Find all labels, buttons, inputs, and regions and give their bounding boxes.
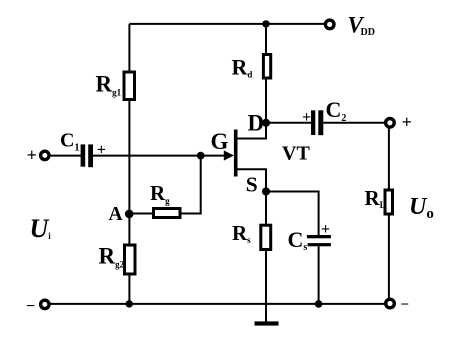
junction drain D bbox=[262, 119, 270, 127]
wire load branch bbox=[388, 123, 390, 304]
svg-text:−: − bbox=[26, 298, 35, 315]
wire node A to Rf bbox=[129, 213, 153, 215]
svg-text:Ui: Ui bbox=[30, 214, 52, 243]
wire source branch through Rs to ground bbox=[265, 192, 267, 322]
resistor Rg2 bbox=[125, 245, 136, 274]
node A junction bbox=[125, 210, 134, 219]
capacitor C2 bbox=[311, 110, 323, 135]
svg-text:G: G bbox=[211, 129, 229, 154]
wire Cs to bottom rail bbox=[318, 246, 320, 304]
svg-text:+: + bbox=[402, 112, 412, 132]
svg-text:+: + bbox=[27, 145, 37, 165]
resistor Rg1 bbox=[124, 72, 135, 100]
wire C2 to output terminal bbox=[323, 122, 385, 124]
svg-text:S: S bbox=[246, 172, 258, 196]
svg-text:+: + bbox=[302, 109, 311, 126]
junction source S bbox=[262, 187, 270, 195]
ground bbox=[255, 321, 279, 325]
wire input line from terminal to C1 bbox=[49, 155, 81, 157]
terminal VDD bbox=[325, 20, 334, 29]
wire drain branch (top rail through Rd to D) bbox=[265, 24, 267, 123]
wire from C1 to gate bbox=[93, 155, 232, 157]
terminal input - bbox=[41, 300, 49, 308]
transistor VT (JFET) bbox=[224, 123, 266, 192]
terminal output - bbox=[386, 299, 395, 308]
svg-text:+: + bbox=[97, 142, 106, 159]
junction top rail / Rd bbox=[262, 20, 269, 27]
junction bottom rail / Cs bbox=[315, 300, 323, 308]
wire left vertical rail bbox=[128, 24, 130, 304]
terminal output + bbox=[386, 119, 395, 128]
capacitor Cs bbox=[307, 235, 331, 246]
wire top rail bbox=[129, 23, 325, 25]
svg-text:D: D bbox=[248, 110, 265, 135]
wire D to C2 bbox=[266, 122, 311, 124]
resistor Rf (series gate resistor) bbox=[154, 209, 181, 218]
capacitor C1 bbox=[81, 144, 93, 167]
wire bottom rail bbox=[49, 303, 386, 305]
resistor Rd bbox=[263, 55, 270, 79]
svg-text:DD: DD bbox=[361, 27, 375, 38]
resistor Rs bbox=[261, 225, 271, 249]
wire gate junction down to Rf bbox=[182, 156, 201, 214]
resistor RL bbox=[385, 190, 393, 214]
terminal input + bbox=[41, 151, 49, 159]
svg-text:A: A bbox=[109, 204, 123, 225]
svg-text:VT: VT bbox=[282, 143, 310, 165]
svg-text:+: + bbox=[321, 221, 330, 238]
svg-text:−: − bbox=[400, 297, 409, 313]
junction bottom rail / left rail bbox=[126, 300, 133, 307]
junction gate node bbox=[197, 152, 205, 160]
wire S to Cs branch bbox=[266, 192, 319, 236]
